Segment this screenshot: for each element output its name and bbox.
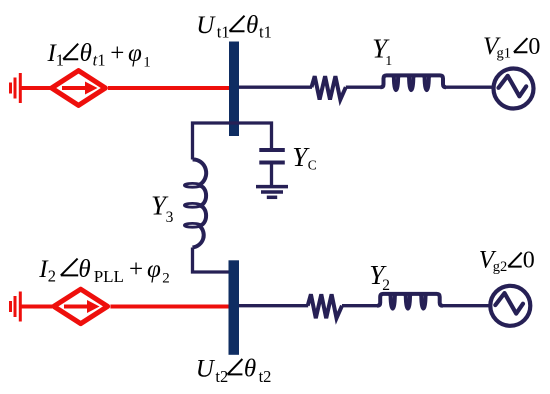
wire (navy, inductor to source Vg1) (446, 86, 495, 89)
wire (navy, inductor to source Vg2) (442, 304, 491, 307)
svg-text:0: 0 (528, 34, 540, 60)
wire (navy, bus1 to resistor) (239, 86, 312, 89)
label I2 phase (I2 angle theta_PLL + phi_2) (38, 256, 170, 286)
svg-text:PLL: PLL (94, 267, 124, 286)
label I1 phase (I1 angle theta_t1 + phi_1) (47, 40, 151, 70)
svg-text:2: 2 (162, 270, 170, 286)
node bus U_t2 (navy bar) (229, 260, 240, 355)
resistor (part of Y1) (312, 76, 346, 99)
svg-text:0: 0 (523, 248, 535, 274)
svg-text:θ: θ (78, 256, 90, 283)
ground G2 (red, bottom-left) (11, 292, 21, 322)
svg-text:g1: g1 (497, 46, 512, 62)
wire (navy, resistor to inductor) (346, 86, 381, 89)
label Y3 (151, 191, 174, 227)
wire (navy, Y3 bottom to bus2) (193, 248, 229, 273)
inductor Y3 (vertical) (193, 159, 207, 247)
svg-text:1: 1 (97, 51, 105, 70)
svg-text:1: 1 (56, 51, 64, 70)
svg-text:3: 3 (166, 209, 174, 226)
label U_t1 angle theta_t1 (196, 12, 272, 42)
ground (navy, below capacitor) (256, 187, 288, 198)
capacitor Y_C (259, 150, 285, 163)
wire (red, G2 to I2) (20, 305, 52, 309)
svg-text:U: U (196, 12, 216, 39)
ground G1 (red, top-left) (11, 73, 21, 103)
svg-text:C: C (308, 157, 317, 172)
label Vg1 angle 0 (483, 33, 540, 62)
svg-text:θ: θ (246, 12, 258, 39)
source Vg2 (AC circle) (490, 286, 530, 326)
node bus U_t1 (navy bar) (229, 42, 239, 137)
svg-text:t1: t1 (259, 23, 272, 42)
current source I2 (red diamond with arrow) (54, 289, 108, 323)
svg-text:θ: θ (80, 40, 92, 67)
source Vg1 (AC circle) (494, 69, 534, 109)
label Vg2 angle 0 (479, 247, 535, 276)
label Y_C (292, 142, 317, 172)
wire (navy, resistor to inductor) (342, 304, 378, 307)
svg-text:2: 2 (382, 277, 390, 294)
svg-text:1: 1 (143, 54, 151, 70)
svg-text:t2: t2 (259, 367, 272, 386)
wire (red, I2 to bus2) (110, 305, 228, 309)
svg-text:+: + (110, 40, 124, 67)
wire (red, G1 to I1) (20, 86, 50, 90)
svg-text:2: 2 (48, 267, 56, 286)
wire (red, I1 to bus 1) (108, 86, 229, 90)
svg-text:+: + (129, 256, 143, 283)
inductor Y3 loop turns (184, 183, 200, 227)
wire (navy, bus2 to resistor) (239, 304, 308, 307)
svg-text:φ: φ (128, 40, 142, 67)
inductor (part of Y2) (377, 294, 442, 309)
label Y1 (372, 33, 392, 69)
svg-text:t2: t2 (215, 367, 228, 386)
svg-text:θ: θ (244, 355, 256, 382)
label U_t2 angle theta_t2 (196, 355, 272, 386)
wire (navy, middle tee off bus1) (193, 123, 272, 160)
label Y2 (369, 260, 390, 294)
svg-text:g2: g2 (493, 259, 508, 275)
svg-text:t1: t1 (217, 23, 230, 42)
svg-text:U: U (196, 355, 216, 382)
inductor (part of Y1) (381, 75, 446, 90)
svg-text:φ: φ (147, 256, 161, 283)
resistor (part of Y2) (308, 294, 342, 318)
wire (navy, capacitor to ground) (270, 165, 273, 188)
svg-text:1: 1 (385, 54, 392, 69)
current source I1 (red diamond with arrow) (52, 71, 106, 106)
